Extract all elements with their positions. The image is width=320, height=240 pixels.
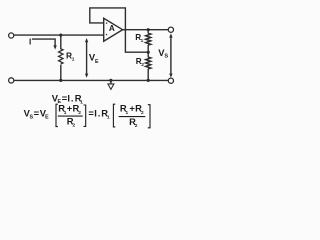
svg-text:=: = xyxy=(34,108,40,119)
svg-text:2: 2 xyxy=(141,62,144,68)
svg-text:S: S xyxy=(164,54,168,60)
svg-text:2: 2 xyxy=(73,123,76,129)
svg-text:I: I xyxy=(29,37,31,46)
svg-text:1: 1 xyxy=(72,56,75,62)
svg-text:E: E xyxy=(95,59,99,65)
svg-text:2: 2 xyxy=(78,110,81,116)
svg-text:1: 1 xyxy=(80,99,83,105)
svg-text:A: A xyxy=(109,24,115,33)
svg-text:2: 2 xyxy=(135,123,138,129)
svg-text:1: 1 xyxy=(126,110,129,116)
svg-text:1: 1 xyxy=(141,38,144,44)
svg-text:2: 2 xyxy=(141,110,144,116)
svg-text:I: I xyxy=(94,108,97,119)
svg-text:E: E xyxy=(45,115,49,121)
svg-text:1: 1 xyxy=(107,115,110,121)
svg-text:.: . xyxy=(98,108,101,119)
